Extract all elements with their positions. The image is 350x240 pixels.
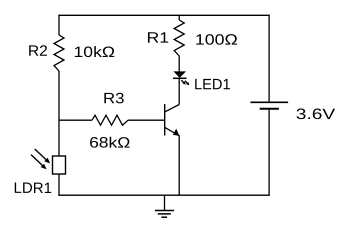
svg-text:10kΩ: 10kΩ	[74, 44, 116, 61]
svg-text:3.6V: 3.6V	[296, 106, 335, 123]
svg-text:LDR1: LDR1	[13, 180, 52, 197]
svg-text:68kΩ: 68kΩ	[89, 135, 130, 152]
svg-text:R2: R2	[28, 43, 48, 60]
svg-text:LED1: LED1	[194, 76, 231, 93]
svg-text:R1: R1	[147, 30, 170, 47]
svg-text:100Ω: 100Ω	[195, 32, 238, 49]
svg-text:R3: R3	[103, 90, 125, 107]
